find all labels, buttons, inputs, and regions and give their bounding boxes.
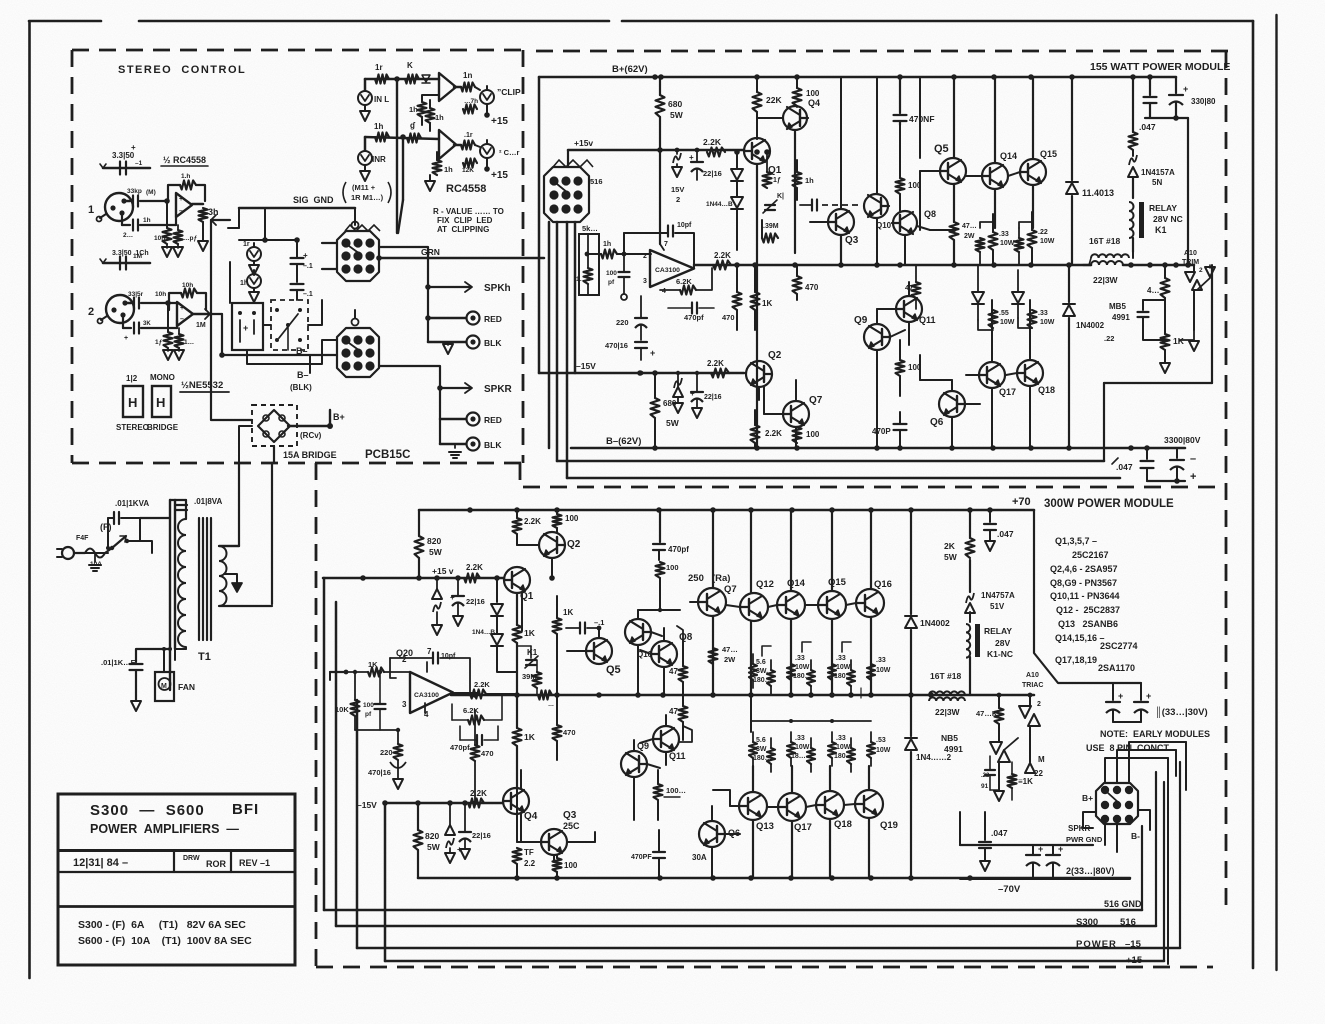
svg-text:Q8: Q8 xyxy=(924,209,936,219)
label MB5 xyxy=(1104,302,1130,343)
svg-text:Q10,11 - PN3644: Q10,11 - PN3644 xyxy=(1050,591,1120,601)
svg-text:.33: .33 xyxy=(999,231,1009,238)
label A10 b xyxy=(1022,672,1043,689)
svg-text:6.2K: 6.2K xyxy=(463,706,479,715)
op-amp CA3100 U1 xyxy=(643,152,694,295)
resistor 100 h xyxy=(659,510,661,542)
svg-text:100: 100 xyxy=(806,89,820,98)
svg-text:K|: K| xyxy=(777,193,784,200)
svg-text:3: 3 xyxy=(643,278,647,285)
svg-text:470pf: 470pf xyxy=(684,313,704,322)
svg-text:F4F: F4F xyxy=(76,535,89,542)
LED CLIP R xyxy=(475,140,519,158)
svg-text:.047: .047 xyxy=(1139,122,1156,132)
svg-text:RED: RED xyxy=(484,314,502,324)
svg-text:.55: .55 xyxy=(999,310,1009,317)
svg-text:Q2: Q2 xyxy=(768,350,782,361)
transistor Q16 xyxy=(856,579,892,617)
svg-text:10h: 10h xyxy=(155,291,166,298)
svg-text:470: 470 xyxy=(722,313,735,322)
resistor 47 d xyxy=(905,265,921,309)
svg-text:1K: 1K xyxy=(524,732,536,742)
155 watt power module border xyxy=(523,51,1228,912)
resistor 100 g xyxy=(553,510,579,533)
label NB5 b xyxy=(941,733,963,754)
resistor 47 b xyxy=(669,695,688,740)
wire -15 rail 300 xyxy=(357,800,503,810)
resistor 10K b xyxy=(335,670,360,730)
svg-text:1r: 1r xyxy=(243,241,250,248)
svg-text:12|31| 84 –: 12|31| 84 – xyxy=(73,857,128,869)
wire drop 871 xyxy=(870,510,872,695)
svg-text:180…: 180… xyxy=(834,673,853,680)
svg-text:4991: 4991 xyxy=(944,744,963,754)
svg-text:K1: K1 xyxy=(1155,225,1167,235)
resistor 2.2K Q1 xyxy=(703,137,725,157)
svg-text:22: 22 xyxy=(1034,769,1043,778)
wire xyxy=(638,610,664,695)
svg-text:R - VALUE …… TO: R - VALUE …… TO xyxy=(433,207,504,216)
svg-text:REV –1: REV –1 xyxy=(239,858,270,868)
svg-text:+: + xyxy=(457,845,462,854)
svg-text:Q17: Q17 xyxy=(999,387,1016,397)
label PCB15C xyxy=(365,449,410,461)
cap 3300/80 xyxy=(1147,435,1201,484)
svg-text:10h: 10h xyxy=(154,235,165,242)
svg-text:100: 100 xyxy=(565,514,579,523)
svg-text:Q8: Q8 xyxy=(679,632,693,643)
svg-text:2.2K: 2.2K xyxy=(474,680,490,689)
note early modules xyxy=(1086,729,1210,753)
svg-text:Q5: Q5 xyxy=(934,143,949,155)
svg-text:10W: 10W xyxy=(836,664,851,671)
svg-text:½NE5532: ½NE5532 xyxy=(181,380,223,391)
wire xyxy=(759,380,796,448)
wire xyxy=(952,300,1030,448)
transformer core xyxy=(199,518,211,640)
label 155 watt power module xyxy=(1090,61,1230,73)
resistor fb ch2 xyxy=(169,282,206,310)
svg-text:MB5: MB5 xyxy=(1109,302,1126,311)
wire base bus xyxy=(726,603,856,607)
caps 2x3300/80 xyxy=(960,844,1130,879)
resistor row2a xyxy=(976,222,1033,265)
svg-text:Q7: Q7 xyxy=(724,584,737,595)
resistor 2.2K g xyxy=(464,563,483,583)
transistor Q14b xyxy=(777,578,806,619)
wire trim loop xyxy=(1180,330,1199,351)
svg-text:22|3W: 22|3W xyxy=(935,707,961,717)
jack BLK xyxy=(467,336,503,349)
svg-text:180…: 180… xyxy=(753,755,772,762)
transistor Q14 xyxy=(966,77,1017,189)
svg-text:–: – xyxy=(1190,453,1196,465)
svg-text:Q17: Q17 xyxy=(794,822,812,833)
svg-text:5N: 5N xyxy=(1152,178,1162,187)
resistor 10K xyxy=(154,201,172,257)
cap 470pf b xyxy=(653,544,689,560)
label 516 gnd xyxy=(1104,899,1142,909)
wire in1 xyxy=(100,164,150,168)
svg-text:28V NC: 28V NC xyxy=(1153,214,1183,224)
svg-text:1h: 1h xyxy=(435,113,444,122)
connector J2 xyxy=(337,310,379,377)
svg-text:47…: 47… xyxy=(962,223,977,230)
cap 330/80 xyxy=(1145,77,1216,268)
svg-text:A10: A10 xyxy=(1184,250,1197,257)
op-amp RC4558a xyxy=(439,73,456,101)
relay K1 b xyxy=(966,624,1013,695)
svg-text:.22: .22 xyxy=(1038,229,1048,236)
svg-text:25C: 25C xyxy=(563,821,580,831)
svg-text:470|16: 470|16 xyxy=(368,768,391,777)
svg-text:22K: 22K xyxy=(766,95,782,105)
jack BLK2 xyxy=(467,438,503,451)
resistor 1K in2 xyxy=(344,660,410,677)
label T1 xyxy=(198,651,211,663)
svg-text:2…: 2… xyxy=(123,232,133,239)
cap .22 91 xyxy=(981,756,999,790)
diode 1N4002 b xyxy=(905,616,950,628)
svg-text:+: + xyxy=(124,335,128,342)
svg-text:1h: 1h xyxy=(603,241,611,248)
svg-text:(F): (F) xyxy=(100,522,112,532)
resistor fb ch1 xyxy=(168,173,205,201)
resistor 2.2K h xyxy=(513,510,542,545)
resistor fuse relay xyxy=(1128,77,1175,198)
svg-text:5W: 5W xyxy=(429,547,443,557)
svg-text:3K: 3K xyxy=(143,321,151,327)
svg-text:TRIM: TRIM xyxy=(1182,259,1199,266)
transistor Q7a xyxy=(764,387,823,427)
svg-text:+70: +70 xyxy=(1012,496,1031,508)
wire bus4 xyxy=(385,782,1164,961)
svg-text:5.6: 5.6 xyxy=(756,659,766,666)
svg-text:CA3100: CA3100 xyxy=(414,692,439,699)
wire xfmr sec2 xyxy=(271,463,273,604)
svg-text:BFI: BFI xyxy=(232,801,259,818)
svg-text:RELAY: RELAY xyxy=(1149,203,1177,213)
svg-text:.047: .047 xyxy=(1116,462,1133,472)
svg-text:.33: .33 xyxy=(836,735,846,742)
svg-text:CA3100: CA3100 xyxy=(655,267,680,274)
resistor 100 c xyxy=(896,125,922,212)
title block xyxy=(58,794,295,965)
cap .01 1KV xyxy=(101,658,143,711)
svg-text:.1r: .1r xyxy=(464,132,473,139)
svg-text:1h: 1h xyxy=(374,122,383,131)
wire row2 top xyxy=(751,695,871,732)
resistor q xyxy=(407,121,421,143)
svg-text:S600 - (F) 10A (T1) 100V: S600 - (F) 10A (T1) 100V 8A SEC xyxy=(78,935,252,947)
svg-text:(Ra): (Ra) xyxy=(712,573,730,584)
diode 11.4013 xyxy=(1066,77,1114,265)
svg-text:.22: .22 xyxy=(1104,334,1114,343)
svg-text:10W: 10W xyxy=(795,744,810,751)
cap .1 xyxy=(552,612,604,634)
resistor 6.2K b xyxy=(452,694,502,725)
svg-text:330|80: 330|80 xyxy=(1191,97,1216,106)
xlr connector 2 xyxy=(88,295,134,328)
svg-text:470P: 470P xyxy=(872,427,891,436)
resistor xyxy=(155,303,173,360)
switch xyxy=(110,518,140,550)
svg-text:S300 - (F) 6A (T1) 82V: S300 - (F) 6A (T1) 82V 6A SEC xyxy=(78,919,246,931)
svg-text:STEREO CONTROL: STEREO CONTROL xyxy=(118,64,246,76)
resistor 10K xyxy=(576,254,593,295)
svg-text:GRN: GRN xyxy=(421,247,440,257)
resistor 100 i xyxy=(638,562,680,612)
wire conn dn xyxy=(1105,810,1150,852)
input box xyxy=(579,234,599,295)
wire base bus 2 xyxy=(713,790,855,807)
svg-text:11.4013: 11.4013 xyxy=(1082,188,1114,198)
svg-text:3300|80V: 3300|80V xyxy=(1164,435,1201,445)
transistor Q17b xyxy=(778,793,812,833)
svg-text:≡1K: ≡1K xyxy=(1018,777,1033,786)
wire right box xyxy=(1104,265,1212,461)
svg-text:+: + xyxy=(1118,691,1123,701)
svg-text:.01|1KVA: .01|1KVA xyxy=(115,499,149,508)
svg-text:.33: .33 xyxy=(836,655,846,662)
connector 516 xyxy=(544,160,603,233)
transistor Q7b xyxy=(690,584,737,616)
wire bus1 xyxy=(324,578,1142,910)
wire top rail 300 xyxy=(419,507,1034,513)
svg-text:22|16: 22|16 xyxy=(466,597,485,606)
svg-text:5W: 5W xyxy=(944,552,958,562)
cap 470/16 b xyxy=(355,728,406,789)
fan xyxy=(155,647,195,701)
wire conn dn1 xyxy=(548,222,551,448)
label GRN wire xyxy=(376,247,544,261)
wire mid rail xyxy=(694,262,1194,268)
svg-text:+: + xyxy=(1183,84,1188,94)
wire out ch2 xyxy=(193,309,222,355)
svg-text:100: 100 xyxy=(606,270,617,277)
svg-text:Q11: Q11 xyxy=(669,751,686,761)
svg-text:1N4157A: 1N4157A xyxy=(1141,168,1175,177)
svg-text:2: 2 xyxy=(88,306,94,318)
svg-text:30A: 30A xyxy=(692,853,707,862)
svg-text:NB5: NB5 xyxy=(941,733,958,743)
wire drop 832 xyxy=(831,510,833,695)
svg-text:220: 220 xyxy=(616,318,629,327)
note clip xyxy=(433,207,504,234)
transistor Q8a xyxy=(892,209,936,235)
label B+ RED xyxy=(288,410,345,440)
svg-text:ROR: ROR xyxy=(206,859,227,869)
transistor Q1b xyxy=(504,567,534,602)
wire xyxy=(174,649,176,660)
svg-text:.39M: .39M xyxy=(763,223,779,230)
transistor Q19 xyxy=(855,790,898,831)
svg-text:Q4: Q4 xyxy=(524,811,538,822)
wire prim xyxy=(85,518,170,553)
wire xyxy=(239,426,252,463)
jack RED xyxy=(467,312,502,325)
svg-text:180…: 180… xyxy=(753,677,772,684)
svg-text:Q14: Q14 xyxy=(1000,151,1017,161)
svg-text:pf: pf xyxy=(608,279,615,286)
svg-text:K1: K1 xyxy=(527,648,538,657)
resistor 2.2K i xyxy=(470,680,517,699)
svg-text:1K: 1K xyxy=(563,608,573,617)
svg-text:25C2167: 25C2167 xyxy=(1072,550,1109,560)
svg-text:Q14,15,16 –: Q14,15,16 – xyxy=(1055,633,1105,643)
svg-text:470: 470 xyxy=(805,283,819,292)
wire drop 911 xyxy=(910,510,912,695)
wire drops bt xyxy=(753,766,869,878)
resistor 100 j xyxy=(553,855,578,878)
svg-text:+: + xyxy=(650,348,655,358)
svg-text:Q16: Q16 xyxy=(874,579,892,590)
resistor .33 10W xyxy=(989,214,1015,265)
resistor 820 5W t xyxy=(415,510,443,578)
transistor Q18a xyxy=(1006,360,1055,395)
wire q6 line xyxy=(920,355,952,391)
op-amp RC4558b xyxy=(439,130,456,159)
svg-text:15V: 15V xyxy=(671,185,684,194)
label B- 62V xyxy=(606,436,641,447)
svg-text:AT CLIPPING: AT CLIPPING xyxy=(437,225,489,234)
resistor 100 Q4 xyxy=(793,77,820,107)
capacitor xyxy=(124,320,177,342)
cap 10pf xyxy=(624,222,694,268)
note mic xyxy=(343,182,391,203)
svg-text:SIG GND: SIG GND xyxy=(293,195,334,205)
svg-text:Q8,G9 - PN3567: Q8,G9 - PN3567 xyxy=(1050,578,1117,588)
wire +15 R xyxy=(462,159,508,182)
svg-text:250: 250 xyxy=(688,573,704,584)
svg-text:B+(62V): B+(62V) xyxy=(612,64,648,75)
zener 1N4757 xyxy=(965,591,1015,622)
LED xyxy=(243,241,261,275)
svg-text:TF: TF xyxy=(524,848,534,857)
cap 22/16 b xyxy=(690,371,722,418)
svg-text:+15: +15 xyxy=(1126,955,1143,966)
svg-text:22|3W: 22|3W xyxy=(1093,275,1119,285)
svg-text:INR: INR xyxy=(372,155,386,164)
wire xyxy=(239,208,300,243)
resistor 1K g xyxy=(1160,310,1185,373)
svg-text:47: 47 xyxy=(669,707,678,716)
svg-text:5.6: 5.6 xyxy=(756,737,766,744)
svg-text:91: 91 xyxy=(981,783,989,790)
capacitor .1b xyxy=(291,284,313,300)
resistor 1K fb2 xyxy=(426,100,445,131)
resistor .22 10W xyxy=(1028,212,1055,265)
resistor 1K j xyxy=(553,596,574,695)
transistor Q15 xyxy=(1008,77,1057,185)
LED CLIP L xyxy=(475,86,521,104)
transistor Q13 xyxy=(730,792,774,832)
svg-text:”CLIP: ”CLIP xyxy=(497,87,521,97)
svg-text:Q13: Q13 xyxy=(756,821,774,832)
svg-text:…: … xyxy=(548,702,554,708)
svg-text:7: 7 xyxy=(427,647,432,656)
resistor 2.2K j xyxy=(468,789,487,808)
wire q6b xyxy=(711,806,713,878)
cap 100pf xyxy=(606,252,630,300)
resistor 1M xyxy=(173,225,197,257)
diode xyxy=(972,265,993,330)
svg-text:Q12 - 25C2837: Q12 - 25C2837 xyxy=(1056,605,1120,615)
cap 470P xyxy=(872,412,907,448)
svg-text:16T #18: 16T #18 xyxy=(1089,236,1120,246)
resistor 470 aa xyxy=(471,710,494,805)
svg-text:100: 100 xyxy=(806,430,820,439)
svg-text:Q18: Q18 xyxy=(834,819,852,830)
label cap ch1 xyxy=(112,143,136,160)
cap 470pf xyxy=(668,303,714,323)
svg-text:.33: .33 xyxy=(876,657,886,664)
svg-text:PWR GND: PWR GND xyxy=(1066,835,1103,844)
LED xyxy=(240,270,261,302)
cap 470NF xyxy=(894,77,935,125)
wire op out xyxy=(453,692,478,694)
svg-text:22|16: 22|16 xyxy=(472,831,491,840)
svg-text:+: + xyxy=(690,389,695,398)
svg-text:1N4……2: 1N4……2 xyxy=(916,753,952,762)
svg-text:10pf: 10pf xyxy=(677,222,692,229)
transistor Q5 xyxy=(920,77,966,230)
transistor Q1 xyxy=(744,138,782,176)
resistor 820 5W b xyxy=(414,803,441,878)
label B- xyxy=(290,346,312,392)
trim K1 b xyxy=(517,646,538,668)
svg-text:Q2: Q2 xyxy=(567,539,581,550)
svg-text:RELAY: RELAY xyxy=(984,626,1012,636)
wire +15 L xyxy=(463,98,508,127)
wire bus2 xyxy=(336,602,1156,926)
capacitor xyxy=(123,217,176,239)
svg-text:100: 100 xyxy=(363,702,374,709)
resistor 680 5W top xyxy=(656,77,684,152)
label half4558 xyxy=(161,155,208,166)
transistor list xyxy=(1050,536,1138,673)
svg-text:1R M1…): 1R M1…) xyxy=(351,193,384,202)
label B- c xyxy=(1131,831,1140,841)
wire pwr gnd xyxy=(960,812,1103,845)
cap .01 8VA xyxy=(175,497,223,510)
svg-text:1h: 1h xyxy=(805,176,814,185)
svg-text:220: 220 xyxy=(380,748,393,757)
cap 22/16 d xyxy=(457,803,491,859)
resistor 1K in xyxy=(585,241,651,259)
svg-text:2.2K: 2.2K xyxy=(524,517,541,526)
svg-text:2.2: 2.2 xyxy=(524,859,536,868)
svg-text:1N4…B: 1N4…B xyxy=(472,629,495,636)
svg-text:47…: 47… xyxy=(722,645,738,654)
svg-text:100: 100 xyxy=(666,563,679,572)
svg-text:+: + xyxy=(179,196,183,203)
svg-text:NOTE: EARLY MODULES: NOTE: EARLY MODULES xyxy=(1100,729,1210,739)
label B+ 62V xyxy=(612,64,648,75)
wire xyxy=(211,352,337,420)
resistor xyxy=(174,328,194,360)
svg-text:33kp: 33kp xyxy=(127,188,142,195)
svg-text:Q11: Q11 xyxy=(919,315,936,325)
svg-text:1K: 1K xyxy=(368,660,378,669)
resistor 47R 2W xyxy=(950,184,977,265)
wire xyxy=(930,228,956,232)
svg-text:Q2,4,6 - 2SA957: Q2,4,6 - 2SA957 xyxy=(1050,564,1118,574)
svg-text:+: + xyxy=(1038,844,1043,854)
wire conn up xyxy=(1105,742,1186,964)
wire q4 dn xyxy=(794,130,796,253)
svg-text:Q14: Q14 xyxy=(787,578,806,589)
